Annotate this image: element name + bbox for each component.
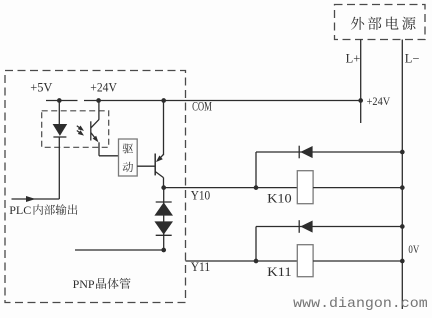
svg-text:PLC: PLC <box>9 203 31 217</box>
wire K11 to 0V bus <box>313 260 402 262</box>
optocoupler phototransistor <box>91 101 99 143</box>
driver block 驱动 <box>119 139 138 176</box>
relay coil K10 <box>297 171 313 204</box>
svg-text:0V: 0V <box>408 244 419 256</box>
label Y11 <box>191 259 211 274</box>
PLC internal dashed enclosure <box>5 71 186 303</box>
optocoupler U1 dashed box <box>42 111 109 148</box>
clamp diode D3 (down) <box>154 221 173 235</box>
label 0V <box>408 244 419 256</box>
wire K11 freewheel branch <box>256 227 402 262</box>
svg-text:L−: L− <box>405 51 420 65</box>
relay coil K11 <box>297 245 313 277</box>
svg-text:K11: K11 <box>267 264 292 279</box>
svg-text:+24V: +24V <box>367 96 391 108</box>
label +24V (left) <box>90 80 117 95</box>
label +24V (external) <box>367 96 391 108</box>
node clamp bottom dot <box>161 248 166 253</box>
node dot +5V branch <box>57 98 62 103</box>
svg-text:L+: L+ <box>346 51 361 65</box>
wire K10 to 0V bus <box>313 187 402 189</box>
optocoupler light arrows <box>77 126 84 136</box>
node dot K10 right <box>400 185 405 190</box>
svg-text:+5V: +5V <box>30 80 53 95</box>
wire LED cathode down <box>58 137 60 199</box>
label K11 <box>267 264 292 279</box>
svg-text:PNP: PNP <box>73 277 95 291</box>
node dots K11 branch <box>254 224 405 263</box>
label PNP晶体管 <box>73 277 131 291</box>
label COM <box>192 98 212 113</box>
label Y10 <box>191 188 211 203</box>
svg-text:K10: K10 <box>267 191 292 206</box>
label 外部电源 (external power) <box>351 17 416 30</box>
wire L- vertical bus <box>401 40 403 310</box>
node dot PNP emitter on rail <box>161 98 166 103</box>
wire K10 freewheel branch <box>256 152 402 188</box>
external power supply dashed box <box>335 5 426 40</box>
wire PLC internal output with arrow <box>12 196 60 202</box>
clamp diode D2 (up) <box>154 202 173 216</box>
freewheel diode D5 <box>299 220 312 233</box>
label L- <box>405 51 420 65</box>
clamp diode leg vertical <box>163 188 165 250</box>
wire +5V rail segment <box>46 100 78 102</box>
node dot +24V external junction <box>358 98 363 103</box>
svg-text:+24V: +24V <box>90 80 117 95</box>
label K10 <box>267 191 292 206</box>
watermark www.diangon.com <box>293 296 428 312</box>
optocoupler LED D1 <box>53 124 68 137</box>
freewheel diode D4 <box>299 146 312 159</box>
wire main +24V/COM rail <box>84 100 361 102</box>
svg-text:Y11: Y11 <box>191 259 211 274</box>
label +5V <box>30 80 53 95</box>
wire LED anode from +5V rail <box>58 101 60 125</box>
wire L+ vertical <box>360 40 362 124</box>
wire driver output to PNP base <box>137 165 155 167</box>
wire emitter to driver <box>99 142 119 156</box>
wire Y10 out <box>164 187 298 189</box>
node dot +24V branch <box>96 98 101 103</box>
wire clamp return <box>75 249 164 251</box>
PNP transistor Q1 <box>155 101 163 188</box>
svg-text:COM: COM <box>192 98 212 113</box>
wire Y11 out <box>186 260 298 262</box>
node dots K10 branch <box>254 150 405 190</box>
label PLC内部输出 <box>9 203 77 217</box>
node dot K11 right <box>400 259 405 264</box>
label L+ <box>346 51 361 65</box>
node Y10 junction dot <box>161 185 166 190</box>
svg-text:www.diangon.com: www.diangon.com <box>293 296 428 312</box>
svg-text:Y10: Y10 <box>191 188 211 203</box>
